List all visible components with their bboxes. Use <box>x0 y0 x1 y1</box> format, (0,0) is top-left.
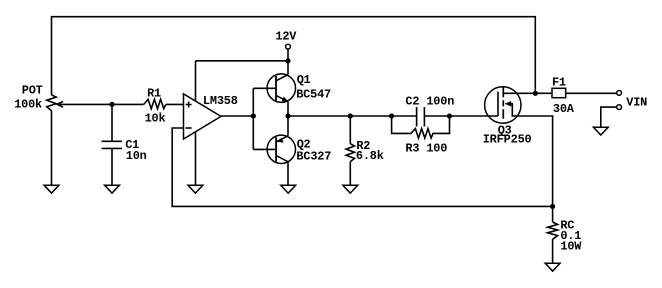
potentiometer wiper arrow <box>57 102 63 108</box>
mosfet Q3 drain tap <box>503 92 535 94</box>
capacitor C2 100n plates <box>417 107 425 127</box>
wire 12V terminal lead <box>287 49 289 61</box>
node RC junction <box>550 204 555 209</box>
wire op-amp V+ pin to 12V rail <box>195 61 197 101</box>
wire output rail to C2 <box>288 115 416 117</box>
transistor Q2 base bar <box>275 137 277 161</box>
svg-text:Q1: Q1 <box>297 73 311 87</box>
transistor Q2 emitter diagonal <box>276 136 288 142</box>
wire 12V rail <box>196 60 289 62</box>
node Q1/Q2 emitter output junction <box>285 113 290 118</box>
wire Q2 base lead <box>253 148 276 150</box>
wire Q2 collector to ground <box>287 162 289 186</box>
resistor R1 10k <box>144 99 166 108</box>
wire C2 right to gate <box>425 115 498 117</box>
svg-text:BC547: BC547 <box>296 88 331 102</box>
ground Q2 <box>281 185 296 193</box>
op-amp U1 LM358 triangle <box>184 94 222 139</box>
node 12V junction <box>285 58 290 63</box>
ground R2 <box>343 185 358 193</box>
transistor Q2 BC327 circle <box>267 135 295 163</box>
wire Q1 emitter to output node <box>287 102 289 116</box>
svg-text:10k: 10k <box>145 112 166 126</box>
terminal VIN positive circle <box>617 91 622 96</box>
node R2 junction <box>348 113 353 118</box>
wire op-amp output to base splitter <box>221 115 253 117</box>
mosfet Q3 source arrowhead <box>505 101 512 107</box>
terminal 12V circle <box>286 44 291 49</box>
svg-text:6.8k: 6.8k <box>356 149 384 163</box>
wire op-amp V- pin to ground <box>195 132 197 186</box>
node drain/fuse junction <box>533 91 538 96</box>
fuse F1 30A body <box>552 88 566 97</box>
svg-text:10n: 10n <box>126 149 147 163</box>
svg-text:C2 100n: C2 100n <box>405 94 454 108</box>
potentiometer POT 100k body <box>47 95 56 111</box>
transistor Q2 emitter arrowhead <box>277 138 284 143</box>
mosfet Q3 channel dashes <box>502 87 504 119</box>
node C2/R3 left junction <box>389 113 394 118</box>
svg-text:BC327: BC327 <box>296 149 331 163</box>
svg-text:12V: 12V <box>275 29 297 43</box>
wire POT bottom lead to ground <box>51 111 53 185</box>
wire wiper to R1 <box>57 103 144 105</box>
resistor R2 6.8k <box>346 116 354 185</box>
svg-text:VIN: VIN <box>626 96 647 110</box>
mosfet Q3 gate bar <box>497 92 499 116</box>
ground VIN <box>593 127 608 135</box>
transistor Q1 base bar <box>275 76 277 101</box>
svg-text:100k: 100k <box>14 98 42 112</box>
resistor RC 0.1 10W <box>548 206 558 263</box>
transistor Q1 BC547 circle <box>267 74 296 103</box>
transistor Q1 emitter arrowhead <box>282 97 289 102</box>
wire Q2 emitter to output node <box>287 116 289 136</box>
wire op-amp minus input feedback <box>172 128 552 206</box>
svg-text:POT: POT <box>22 84 43 98</box>
svg-text:F1: F1 <box>552 75 566 89</box>
wire base splitter vertical <box>252 88 254 149</box>
wire Q1 base lead <box>253 87 276 89</box>
svg-text:R1: R1 <box>147 87 161 101</box>
ground POT <box>44 185 59 193</box>
wire VIN negative to ground <box>601 107 617 127</box>
op-amp minus sign <box>186 127 192 129</box>
transistor Q2 collector diagonal <box>276 156 288 162</box>
resistor R3 100 bypass <box>392 116 450 138</box>
transistor Q1 emitter diagonal <box>276 95 288 101</box>
ground op-amp <box>188 185 203 193</box>
mosfet Q3 IRFP250 circle <box>485 87 521 123</box>
node C1 junction <box>109 102 114 107</box>
wire Q3 source to sense node <box>511 104 553 207</box>
ground C1 <box>105 185 120 193</box>
svg-text:10W: 10W <box>560 240 582 254</box>
op-amp plus sign <box>186 102 192 108</box>
wire Q1 collector to 12V node <box>287 61 289 75</box>
node base splitter <box>251 113 256 118</box>
svg-text:R3 100: R3 100 <box>405 141 447 155</box>
wire drain node to VIN terminal <box>535 92 616 94</box>
svg-text:IRFP250: IRFP250 <box>483 132 532 146</box>
wire top feedback rail from POT top to drain node <box>52 17 536 95</box>
terminal VIN negative circle <box>617 105 622 110</box>
wire R1 to op-amp plus input <box>166 103 184 105</box>
svg-text:LM358: LM358 <box>203 94 238 108</box>
ground RC <box>545 263 560 271</box>
svg-text:30A: 30A <box>553 102 575 116</box>
capacitor C1 10n <box>102 104 122 185</box>
transistor Q1 collector diagonal <box>276 75 288 81</box>
node C2/R3 right junction <box>447 113 452 118</box>
